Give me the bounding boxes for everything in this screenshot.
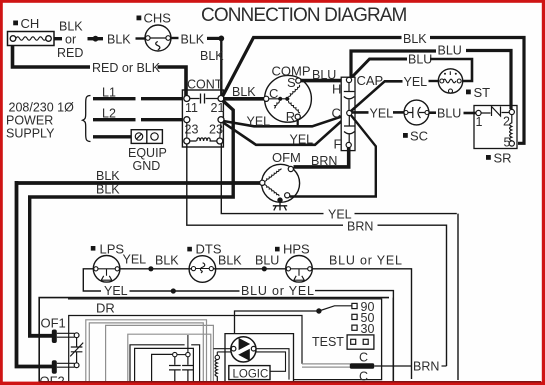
- label YEL: [324, 208, 355, 222]
- label LPS: [91, 242, 125, 257]
- svg-text:YEL: YEL: [104, 284, 128, 298]
- label DTS: [187, 242, 222, 257]
- wire BLK 21 to COMP C: [223, 97, 264, 101]
- wire BLU into ST right: [430, 59, 472, 81]
- svg-text:21: 21: [211, 101, 225, 115]
- COMP internal dots and leads: [278, 97, 282, 101]
- wire YEL CAP C to OFM lower: [290, 115, 376, 197]
- wire into SC: [393, 111, 405, 114]
- CAP terminal C: [347, 110, 352, 115]
- svg-text:BLK: BLK: [155, 254, 179, 268]
- SR coil: [510, 115, 512, 142]
- wire BLU to SR terminal 2: [466, 51, 511, 110]
- COMP terminal C: [264, 96, 269, 101]
- contactor coil terminal right: [217, 138, 223, 144]
- defrost board DR outer box: [39, 298, 389, 385]
- wire RED or BLK right segment down to 11: [158, 67, 187, 96]
- wire CHS right BLK: [171, 37, 179, 39]
- equipment ground terminal block: [131, 130, 162, 144]
- svg-text:BLK: BLK: [59, 20, 83, 34]
- svg-text:SR: SR: [494, 151, 512, 166]
- svg-text:11: 11: [185, 101, 198, 115]
- cap2 stem up: [187, 335, 189, 352]
- wire BRN CAP F to OFM: [294, 148, 349, 167]
- LOGIC box: [229, 366, 270, 380]
- wire into SR 1: [464, 112, 477, 115]
- svg-text:GND: GND: [133, 159, 161, 173]
- svg-text:RED or BLK: RED or BLK: [92, 61, 161, 75]
- wire row2: [130, 290, 240, 292]
- triac enclosure box: [225, 334, 294, 385]
- triac triangles: [239, 338, 251, 350]
- CAP upper section symbol: [344, 83, 355, 111]
- wire BRN right segment and down: [378, 225, 447, 366]
- board inductor coil: [215, 360, 217, 385]
- svg-text:CHS: CHS: [144, 11, 172, 26]
- wire stub CH right: [54, 37, 62, 40]
- high pressure switch HPS: [286, 255, 313, 282]
- OFM winding lower: [265, 185, 279, 197]
- svg-text:BLU: BLU: [312, 68, 336, 82]
- junction dot: [218, 36, 224, 42]
- svg-text:BLU: BLU: [408, 53, 432, 67]
- wire BLU S to CAP H: [301, 79, 347, 83]
- svg-text:R: R: [286, 109, 295, 124]
- junction dot row2: [171, 288, 176, 293]
- svg-text:DR: DR: [96, 301, 115, 316]
- svg-text:H: H: [332, 82, 341, 97]
- jumper square 50: [352, 314, 357, 319]
- wire ground feed: [93, 135, 131, 138]
- svg-text:208/230 1Ø: 208/230 1Ø: [9, 101, 75, 115]
- svg-text:F: F: [334, 137, 342, 152]
- label SC: [403, 129, 428, 144]
- svg-text:BRN: BRN: [311, 154, 337, 168]
- contactor coil: [190, 138, 218, 141]
- contactor terminal 23 left: [184, 117, 190, 123]
- board trace N1: [69, 316, 302, 385]
- CAP terminal H: [346, 77, 351, 82]
- OF1 circle: [74, 333, 79, 338]
- border right: [542, 0, 545, 385]
- jumper square 30: [352, 325, 357, 330]
- TEST square 2: [363, 339, 368, 344]
- SR contact: [481, 107, 510, 117]
- triac pin left: [231, 346, 236, 351]
- wire YEL CAP C to SC: [352, 111, 369, 114]
- wire RED or BLK from CH to contactor 11: [13, 46, 91, 68]
- svg-text:LPS: LPS: [100, 242, 125, 257]
- wire BLK down to contactor 21: [220, 38, 222, 96]
- svg-text:OF1: OF1: [41, 316, 66, 331]
- border bottom: [0, 382, 545, 385]
- svg-text:2: 2: [503, 115, 510, 129]
- svg-text:1: 1: [476, 115, 483, 129]
- svg-text:BLK: BLK: [232, 85, 256, 99]
- wire row1 DTS to HPS: [213, 268, 286, 270]
- wire L2: [93, 118, 183, 121]
- board inner rect B: [68, 299, 382, 380]
- svg-text:C: C: [269, 86, 278, 101]
- wire to BRN bottom: [374, 365, 411, 367]
- wire YEL B from 23 to CAP C: [223, 115, 349, 145]
- board trace rect R1 outer gray: [86, 320, 207, 383]
- wire LPS left U to row2: [83, 269, 101, 291]
- border left: [0, 0, 3, 385]
- svg-text:TEST: TEST: [312, 335, 344, 349]
- OFM winding upper: [265, 168, 282, 181]
- svg-text:YEL: YEL: [404, 75, 428, 89]
- wire YEL CAP C diagonal to ST: [351, 81, 403, 111]
- outdoor fan motor OFM: [262, 150, 301, 202]
- OF1 connector lines: [57, 333, 75, 337]
- cap net circle 2: [186, 352, 190, 356]
- svg-text:BLU or YEL: BLU or YEL: [241, 284, 315, 298]
- C terminal bar: [350, 363, 374, 368]
- wire BLK to CHS with junction: [88, 37, 104, 40]
- svg-text:BLU: BLU: [438, 44, 462, 58]
- cap net link: [177, 354, 186, 356]
- OFM terminal left: [260, 180, 265, 185]
- svg-text:SC: SC: [410, 129, 428, 144]
- svg-text:BRN: BRN: [413, 360, 439, 374]
- crankcase heater CH: [8, 32, 55, 46]
- svg-text:YEL: YEL: [370, 107, 394, 121]
- cap net circle 1: [173, 352, 177, 356]
- svg-text:30: 30: [361, 322, 375, 336]
- run capacitor CAP box: [341, 73, 383, 151]
- COMP winding to R: [289, 101, 301, 113]
- contactor terminal 21: [218, 96, 224, 102]
- crankcase heater switch CHS: [145, 25, 171, 51]
- svg-text:YEL: YEL: [247, 115, 271, 129]
- board trace rect R2 gray: [106, 325, 214, 383]
- svg-text:BLK: BLK: [181, 33, 205, 47]
- svg-text:POWER: POWER: [6, 114, 53, 128]
- OF2 spade terminal: [52, 360, 57, 374]
- wire to junction above CONT: [207, 37, 221, 40]
- svg-text:SUPPLY: SUPPLY: [6, 127, 55, 141]
- SR terminal 1: [476, 110, 481, 115]
- svg-text:BLK: BLK: [403, 32, 427, 46]
- start relay SR box: [474, 106, 517, 149]
- svg-text:LOGIC: LOGIC: [233, 369, 269, 381]
- OFM ground symbol: [273, 200, 287, 210]
- svg-text:OFM: OFM: [272, 150, 301, 165]
- start thermistor ST: [438, 69, 462, 93]
- svg-text:C: C: [359, 351, 368, 365]
- COMP winding to S: [288, 85, 299, 97]
- svg-text:YEL: YEL: [290, 133, 314, 147]
- OF2 circle: [74, 363, 79, 368]
- junction dot color change: [262, 266, 267, 271]
- svg-text:BLU: BLU: [437, 107, 461, 121]
- junction dot color change: [148, 266, 153, 271]
- internal verticals: [187, 123, 221, 138]
- wire BLK to SR 5: [430, 38, 524, 144]
- svg-text:EQUIP: EQUIP: [128, 146, 167, 160]
- contactor contact symbol 11-21: [190, 94, 219, 104]
- board trace rect R4: [135, 348, 194, 385]
- wire into CHS: [136, 37, 146, 39]
- contactor CONT box: [182, 78, 223, 148]
- svg-text:HPS: HPS: [283, 242, 310, 257]
- wire BLU from H diagonal to ST: [353, 59, 408, 77]
- border top: [0, 0, 545, 3]
- feeder wire inner to OF1: [28, 334, 52, 338]
- contactor coil terminal left: [184, 138, 190, 144]
- board trace rect R1 inner gray: [89, 323, 203, 383]
- svg-text:BLU: BLU: [255, 254, 279, 268]
- BRN hook: [442, 365, 447, 367]
- contactor terminal 11: [184, 96, 190, 102]
- COMP terminal R: [295, 114, 300, 119]
- OFM terminal upper right: [288, 166, 293, 171]
- wire L1: [93, 97, 183, 100]
- wire row1 LPS to DTS: [119, 268, 191, 270]
- R stub to wire A: [297, 119, 299, 126]
- junction dot: [93, 36, 99, 42]
- board trace rect R3: [130, 345, 200, 385]
- svg-text:BLK: BLK: [218, 254, 242, 268]
- wire BLK 21 diagonal to top right: [223, 38, 402, 97]
- OF2 connector lines: [57, 363, 75, 367]
- COMP winding start hook: [274, 101, 279, 108]
- triac circle: [231, 337, 256, 362]
- label SR: [486, 151, 512, 166]
- contactor terminal 23 right: [218, 117, 224, 123]
- jumper diagonal to 90: [319, 306, 352, 311]
- svg-text:CONT: CONT: [187, 78, 223, 92]
- CAP lower section symbol: [344, 116, 355, 143]
- wire BLU CAP H up to SR 2: [351, 51, 436, 78]
- board trace rect N4b: [128, 334, 211, 385]
- svg-text:ST: ST: [474, 85, 491, 100]
- label BRN: [343, 220, 378, 234]
- wire row1 HPS right and down: [312, 269, 412, 379]
- wire BLU SC to SR 1: [430, 111, 437, 114]
- SR terminal 5: [509, 141, 514, 146]
- board cap net corner: [152, 354, 173, 385]
- CAP terminal F: [346, 142, 351, 147]
- TEST box: [347, 335, 374, 349]
- jumper square 90: [352, 303, 357, 308]
- svg-text:C: C: [332, 106, 341, 121]
- coil leads to triac: [213, 349, 232, 356]
- svg-text:BRN: BRN: [347, 220, 373, 234]
- wire YEL into ST: [429, 80, 440, 82]
- board capacitor 2: [182, 357, 194, 385]
- svg-text:BLK: BLK: [96, 183, 120, 197]
- triac pin right: [251, 346, 256, 351]
- COMP terminal S: [296, 78, 301, 83]
- label HPS: [275, 242, 310, 257]
- TEST square 1: [351, 339, 356, 344]
- wire BLK OFM feeder from left: [17, 181, 262, 367]
- svg-text:BLK: BLK: [96, 169, 120, 183]
- jumper feed wire: [235, 311, 319, 334]
- start capacitor SC: [404, 100, 429, 125]
- svg-text:BLK: BLK: [200, 49, 224, 63]
- svg-text:YEL: YEL: [123, 253, 147, 267]
- OF1 spade terminal: [52, 330, 57, 344]
- OFM bottom junction dot: [277, 197, 282, 202]
- OFM terminal lower right: [285, 193, 290, 198]
- wire row2 right and down: [315, 291, 393, 381]
- wire YEL down right side: [457, 214, 459, 380]
- board right edge: [392, 298, 394, 381]
- gray pair to C bar: [302, 364, 350, 367]
- wire YEL from contactor coil right down: [221, 144, 456, 214]
- SR terminal 2: [509, 109, 514, 114]
- wire YEL A from 23 to CAP C with R stub: [223, 114, 348, 126]
- label ST: [466, 85, 490, 100]
- triac right leads: [256, 349, 289, 380]
- svg-text:CH: CH: [21, 16, 40, 31]
- bleed capacitor symbol: [70, 338, 83, 363]
- board capacitor 1: [169, 357, 181, 385]
- svg-text:BLU or YEL: BLU or YEL: [329, 254, 403, 268]
- svg-text:RED: RED: [57, 46, 83, 60]
- svg-text:CONNECTION DIAGRAM: CONNECTION DIAGRAM: [201, 5, 407, 26]
- svg-text:or: or: [65, 33, 76, 47]
- svg-text:S: S: [287, 75, 296, 90]
- relay coil terminal circle: [215, 355, 219, 359]
- low pressure switch LPS: [93, 255, 120, 282]
- label CH: [13, 16, 39, 31]
- wire BRN from contactor coil left down: [187, 144, 345, 225]
- jumper junction dot: [316, 308, 321, 313]
- brace: [83, 96, 91, 142]
- compressor COMP: [265, 64, 312, 123]
- wire 21 to OF1 feeder: [30, 101, 234, 335]
- svg-text:5: 5: [504, 136, 511, 150]
- svg-text:BLK: BLK: [107, 33, 131, 47]
- defrost thermostat DTS: [189, 256, 216, 283]
- label CHS: [137, 11, 172, 26]
